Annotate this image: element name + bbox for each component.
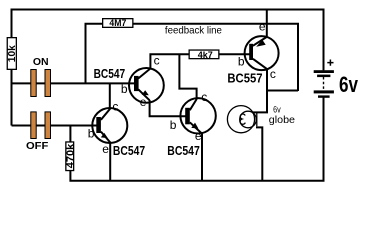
resistor 470k	[65, 142, 76, 171]
svg-text:4M7: 4M7	[109, 18, 126, 29]
svg-text:10k: 10k	[7, 45, 18, 62]
touch pad ON plate 2	[45, 70, 51, 97]
wire: Q1 collector up to 4k7 left lead	[149, 54, 188, 68]
svg-text:4k7: 4k7	[198, 50, 213, 61]
wire: node joining BC557 collector, feedback line and globe top	[252, 69, 298, 112]
svg-text:6v: 6v	[273, 104, 281, 114]
wire: 4M7 left lead and drop to Q1 base node	[86, 24, 103, 84]
wire: drop from OFF wire to 470k top	[69, 126, 71, 143]
wire: positive rail (top), left column and drop to battery	[12, 10, 324, 126]
touch pad OFF plate 1	[31, 112, 36, 139]
svg-text:BC557: BC557	[227, 72, 262, 86]
svg-text:e: e	[259, 19, 266, 33]
wire: drop from Q1 base wire to Q2 collector	[109, 83, 111, 109]
wire: Q3 emitter to ground rail	[201, 133, 203, 181]
svg-text:BC547: BC547	[94, 67, 126, 81]
svg-text:e: e	[140, 95, 147, 109]
transistor Q2 BC547	[92, 108, 127, 143]
resistor 4M7	[103, 18, 133, 29]
wire: 4k7 right lead to BC557 base	[220, 53, 251, 55]
svg-text:470k: 470k	[65, 143, 76, 168]
resistor 4k7	[189, 50, 219, 61]
wire: OFF pad wire to Q2 base	[12, 125, 100, 127]
svg-text:b: b	[238, 54, 245, 68]
svg-text:globe: globe	[269, 114, 295, 126]
wire: ON pad wire to Q1 base	[12, 82, 137, 84]
wire: feedback line from 4M7 right lead down to lamp node	[134, 24, 299, 91]
lamp 6v globe	[227, 106, 256, 133]
svg-text:6v: 6v	[339, 72, 359, 97]
svg-text:c: c	[201, 90, 207, 104]
svg-text:b: b	[88, 126, 95, 140]
svg-text:c: c	[112, 99, 118, 113]
transistor Q4 BC557	[245, 36, 279, 70]
svg-text:c: c	[154, 53, 160, 67]
svg-text:e: e	[195, 129, 202, 143]
transistor Q3 BC547	[180, 98, 215, 133]
wire: globe bottom lead to ground rail	[256, 127, 262, 180]
wire: Q2 emitter to ground rail	[109, 143, 111, 181]
battery B1 6v	[314, 70, 334, 98]
wire: Q1 emitter to Q3 base	[150, 100, 188, 116]
resistor 10k	[7, 38, 18, 70]
wire: 470k bottom lead, ground rail and battery negative riser	[69, 97, 323, 181]
wire: drop from 4k7 lead to Q3 collector	[179, 54, 196, 99]
svg-text:feedback line: feedback line	[165, 25, 222, 37]
svg-text:c: c	[270, 67, 276, 81]
svg-text:OFF: OFF	[26, 140, 49, 152]
svg-text:b: b	[121, 82, 128, 96]
touch pad OFF plate 2	[45, 112, 51, 139]
svg-text:BC547: BC547	[167, 144, 200, 158]
touch pad ON plate 1	[31, 70, 36, 97]
battery plus sign	[327, 60, 333, 66]
svg-text:ON: ON	[33, 56, 49, 68]
wire: BC557 emitter up to positive rail	[266, 10, 268, 38]
svg-text:b: b	[170, 118, 177, 132]
transistor Q1 BC547	[129, 68, 164, 103]
svg-text:BC547: BC547	[113, 144, 145, 158]
svg-text:e: e	[102, 142, 109, 156]
